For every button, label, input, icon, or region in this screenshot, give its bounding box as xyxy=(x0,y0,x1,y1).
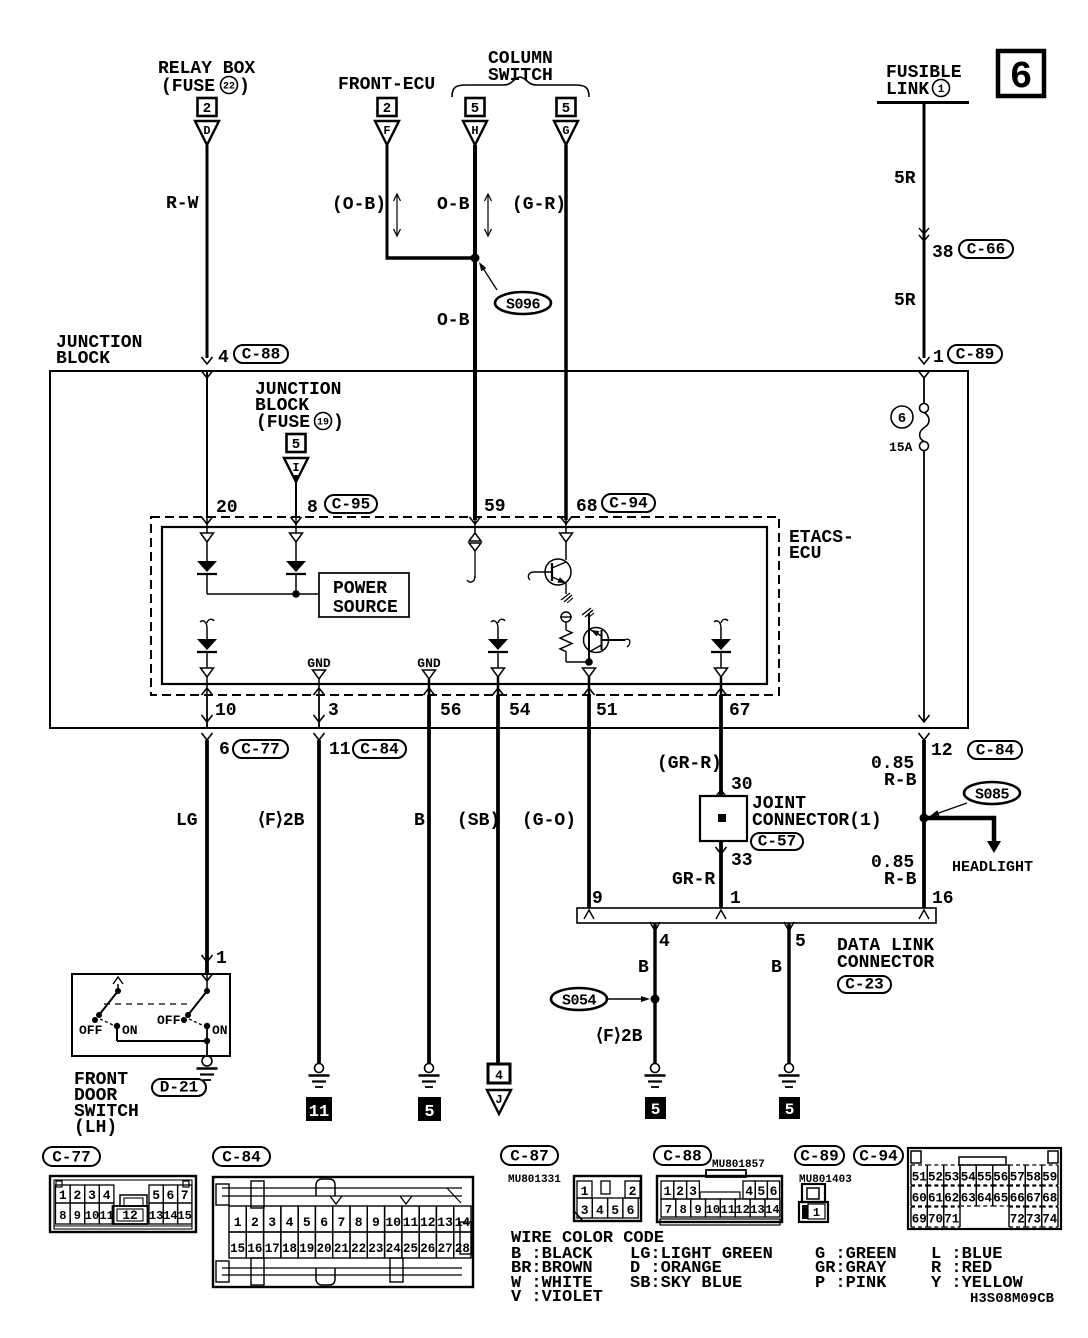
svg-text:5: 5 xyxy=(611,1203,619,1218)
svg-text:6: 6 xyxy=(219,740,230,760)
svg-text:I: I xyxy=(292,461,299,475)
svg-text:63: 63 xyxy=(961,1192,976,1206)
wire O-B from column switch H to ECU pin 59 xyxy=(473,145,477,520)
svg-text:8: 8 xyxy=(680,1203,687,1217)
svg-text:(GR-R): (GR-R) xyxy=(657,754,722,774)
svg-text:7: 7 xyxy=(665,1203,672,1217)
svg-text:5: 5 xyxy=(152,1188,160,1203)
svg-text:13: 13 xyxy=(750,1203,764,1217)
svg-text:6: 6 xyxy=(166,1188,174,1203)
svg-text:55: 55 xyxy=(977,1171,992,1185)
svg-text:FRONT-ECU: FRONT-ECU xyxy=(338,75,435,95)
svg-text:C-94: C-94 xyxy=(609,495,648,513)
svg-text:1: 1 xyxy=(813,1206,820,1220)
connector view C-89 xyxy=(795,1146,844,1165)
svg-text:2: 2 xyxy=(383,101,391,117)
svg-text:13: 13 xyxy=(437,1215,453,1230)
svg-text:8: 8 xyxy=(355,1215,363,1230)
svg-text:11: 11 xyxy=(309,1103,329,1122)
svg-text:69: 69 xyxy=(912,1213,927,1227)
svg-text:12: 12 xyxy=(420,1215,436,1230)
svg-text:C-57: C-57 xyxy=(758,833,796,851)
svg-text:51: 51 xyxy=(596,701,618,721)
svg-text:65: 65 xyxy=(993,1192,1008,1206)
svg-text:20: 20 xyxy=(216,498,238,518)
ground symbol page ref 5c xyxy=(779,1097,800,1119)
door switch right pole xyxy=(206,974,208,991)
wire R-W from relay box to junction block xyxy=(206,145,209,358)
connector view C-84 xyxy=(213,1147,270,1166)
ECU bottom pin entries xyxy=(202,688,213,695)
svg-text:3: 3 xyxy=(689,1184,697,1199)
svg-text:18: 18 xyxy=(282,1242,297,1256)
svg-text:11: 11 xyxy=(403,1215,419,1230)
svg-text:C-87: C-87 xyxy=(510,1148,548,1166)
svg-text:F: F xyxy=(383,124,390,138)
svg-text:8: 8 xyxy=(59,1209,66,1223)
svg-text:67: 67 xyxy=(1026,1192,1041,1206)
svg-text:12: 12 xyxy=(122,1208,138,1223)
wire pin 3 to ground xyxy=(318,695,320,728)
diode chain at ECU pin 10 xyxy=(200,619,214,628)
svg-text:SB:SKY BLUE: SB:SKY BLUE xyxy=(630,1274,742,1293)
svg-text:H3S08M09CB: H3S08M09CB xyxy=(970,1291,1055,1307)
svg-text:28: 28 xyxy=(455,1242,470,1256)
brace over column switch connectors xyxy=(452,77,589,97)
svg-text:1: 1 xyxy=(216,949,227,969)
svg-text:16: 16 xyxy=(932,889,954,909)
connector I (fuse 19 pin 5) xyxy=(287,434,306,452)
svg-text:7: 7 xyxy=(337,1215,345,1230)
svg-text:1: 1 xyxy=(581,1184,589,1199)
ETACS-ECU solid box xyxy=(162,527,767,684)
svg-text:12: 12 xyxy=(735,1203,749,1217)
svg-text:64: 64 xyxy=(977,1192,993,1206)
svg-text:(FUSE: (FUSE xyxy=(256,413,310,433)
ground symbol page ref 11 xyxy=(306,1097,332,1121)
bidirectional arrow 1 xyxy=(396,194,398,236)
svg-text:66: 66 xyxy=(1010,1192,1025,1206)
wire 5R from fusible link xyxy=(923,104,926,358)
svg-text:8: 8 xyxy=(307,498,318,518)
svg-text:): ) xyxy=(333,413,344,433)
svg-text:LINK: LINK xyxy=(886,80,929,100)
svg-text:22: 22 xyxy=(351,1242,366,1256)
svg-text:51: 51 xyxy=(912,1171,927,1185)
svg-text:6: 6 xyxy=(770,1184,778,1199)
svg-text:S096: S096 xyxy=(506,297,541,314)
svg-text:6: 6 xyxy=(627,1203,635,1218)
svg-text:2: 2 xyxy=(629,1184,637,1199)
wire inside junction block from pin 4 xyxy=(206,371,208,518)
svg-text:C-94: C-94 xyxy=(859,1148,898,1166)
svg-text:C-89: C-89 xyxy=(956,346,994,364)
svg-text:33: 33 xyxy=(731,851,753,871)
svg-text:SWITCH: SWITCH xyxy=(488,66,553,86)
connector H (column switch pin 5) xyxy=(466,98,485,116)
svg-text:11: 11 xyxy=(329,740,351,760)
svg-text:74: 74 xyxy=(1042,1213,1058,1227)
svg-text:4: 4 xyxy=(596,1203,604,1218)
svg-text:4: 4 xyxy=(218,348,229,368)
svg-text:R-W: R-W xyxy=(166,194,199,214)
ground under wire 56 xyxy=(425,1064,434,1073)
svg-text:(G-O): (G-O) xyxy=(522,811,576,831)
svg-text:C-77: C-77 xyxy=(241,741,279,759)
wire from fuse 19 to ECU pin 8 xyxy=(295,482,297,518)
svg-text:1: 1 xyxy=(933,348,944,368)
wire DLC pin 4 to ground xyxy=(653,923,656,1063)
svg-text:5: 5 xyxy=(292,437,300,453)
wire pin 10 to front door switch xyxy=(206,695,208,728)
ground under DLC pin 5 xyxy=(785,1064,794,1073)
diode chain at ECU pin 20 xyxy=(206,518,208,533)
svg-text:5R: 5R xyxy=(894,291,916,311)
svg-text:23: 23 xyxy=(368,1242,383,1256)
svg-text:5: 5 xyxy=(651,1101,661,1119)
svg-text:2: 2 xyxy=(251,1215,259,1230)
svg-text:68: 68 xyxy=(576,497,598,517)
svg-text:13: 13 xyxy=(149,1209,163,1223)
svg-text:GR-R: GR-R xyxy=(672,870,715,890)
door switch left pole xyxy=(113,977,123,984)
connector D (relay box pin 2) xyxy=(198,98,217,116)
svg-text:73: 73 xyxy=(1026,1213,1041,1227)
svg-text:B: B xyxy=(414,811,425,831)
svg-text:5: 5 xyxy=(562,101,570,117)
svg-text:⟨F⟩2B: ⟨F⟩2B xyxy=(258,811,305,831)
svg-text:C-84: C-84 xyxy=(976,742,1015,760)
svg-text:HEADLIGHT: HEADLIGHT xyxy=(952,859,1033,876)
splice node S096 xyxy=(471,254,480,263)
ground under DLC pin 4 xyxy=(651,1064,660,1073)
wire pin 56 to ground xyxy=(427,695,431,1063)
svg-text:15: 15 xyxy=(177,1209,191,1223)
svg-text:CONNECTOR: CONNECTOR xyxy=(837,953,934,973)
svg-text:15A: 15A xyxy=(889,440,913,455)
svg-text:P :PINK: P :PINK xyxy=(815,1274,887,1293)
svg-text:O-B: O-B xyxy=(437,311,470,331)
transistor Q2 with resistor at ECU pin 51 xyxy=(582,608,591,615)
svg-text:6: 6 xyxy=(1010,56,1033,99)
svg-text:C-89: C-89 xyxy=(800,1148,838,1166)
connector view C-87 xyxy=(501,1146,558,1165)
connector F (front-ecu pin 2) xyxy=(378,98,397,116)
svg-text:14: 14 xyxy=(163,1209,177,1223)
svg-text:5: 5 xyxy=(424,1103,434,1122)
svg-text:15: 15 xyxy=(230,1242,245,1256)
svg-text:V :VIOLET: V :VIOLET xyxy=(511,1288,603,1307)
svg-text:25: 25 xyxy=(403,1242,418,1256)
svg-text:19: 19 xyxy=(299,1242,314,1256)
diode chain at ECU pin 54 xyxy=(491,619,505,628)
svg-text:MU801331: MU801331 xyxy=(508,1174,561,1186)
svg-text:17: 17 xyxy=(265,1242,280,1256)
ground under door switch D-21 xyxy=(202,1056,212,1066)
svg-text:⟨F⟩2B: ⟨F⟩2B xyxy=(596,1027,643,1047)
svg-text:D-21: D-21 xyxy=(160,1079,198,1097)
svg-text:GND: GND xyxy=(417,656,441,671)
svg-text:O-B: O-B xyxy=(437,195,470,215)
svg-text:(FUSE: (FUSE xyxy=(161,77,215,97)
svg-text:C-23: C-23 xyxy=(845,976,883,994)
svg-text:2: 2 xyxy=(203,101,211,117)
svg-text:6: 6 xyxy=(898,411,906,427)
svg-text:10: 10 xyxy=(385,1215,401,1230)
svg-text:19: 19 xyxy=(317,418,329,429)
svg-text:3: 3 xyxy=(581,1203,589,1218)
svg-text:C-88: C-88 xyxy=(663,1148,701,1166)
joint connector (1) xyxy=(716,790,727,797)
power source box xyxy=(319,573,409,617)
svg-text:26: 26 xyxy=(420,1242,435,1256)
svg-text:ECU: ECU xyxy=(789,544,821,564)
svg-text:1: 1 xyxy=(938,84,945,96)
svg-text:4: 4 xyxy=(286,1215,294,1230)
svg-text:9: 9 xyxy=(372,1215,380,1230)
svg-text:71: 71 xyxy=(944,1213,959,1227)
svg-text:10: 10 xyxy=(706,1203,720,1217)
svg-text:67: 67 xyxy=(729,701,751,721)
svg-text:20: 20 xyxy=(317,1242,332,1256)
svg-text:LG: LG xyxy=(176,811,198,831)
connector view C-88 xyxy=(654,1146,711,1165)
connector view C-94 xyxy=(854,1146,903,1165)
svg-text:GND: GND xyxy=(307,656,331,671)
bidirectional arrow 2 xyxy=(487,194,489,236)
svg-text:C-88: C-88 xyxy=(242,346,280,364)
svg-text:60: 60 xyxy=(912,1192,927,1206)
connector G (column switch pin 5) xyxy=(557,98,576,116)
svg-text:4: 4 xyxy=(659,932,670,952)
svg-text:9: 9 xyxy=(694,1203,701,1217)
svg-text:G: G xyxy=(562,124,569,138)
resistor R1 xyxy=(561,612,571,622)
ground under wire 3 xyxy=(315,1064,324,1073)
svg-text:D: D xyxy=(203,124,210,138)
svg-text:4: 4 xyxy=(745,1184,753,1199)
svg-text:(O-B): (O-B) xyxy=(332,195,386,215)
svg-text:ON: ON xyxy=(212,1023,228,1038)
svg-text:R-B: R-B xyxy=(884,771,917,791)
svg-text:POWER: POWER xyxy=(333,579,387,599)
svg-text:21: 21 xyxy=(334,1242,349,1256)
wire pin 51 to data link pin 9 xyxy=(587,695,591,908)
svg-text:5R: 5R xyxy=(894,169,916,189)
svg-text:2: 2 xyxy=(676,1184,684,1199)
svg-text:3: 3 xyxy=(88,1188,96,1203)
wire pin 67 to joint connector xyxy=(719,695,723,796)
svg-text:5: 5 xyxy=(757,1184,765,1199)
svg-text:24: 24 xyxy=(386,1242,402,1256)
svg-text:52: 52 xyxy=(928,1171,943,1185)
svg-text:2: 2 xyxy=(73,1188,81,1203)
ground symbol page ref 5 xyxy=(418,1097,441,1121)
svg-text:14: 14 xyxy=(765,1203,779,1217)
node at power source input xyxy=(292,590,300,598)
ground symbol page ref 5b xyxy=(645,1097,666,1119)
svg-text:(LH): (LH) xyxy=(74,1118,117,1138)
splice node S054 xyxy=(551,988,607,1010)
internal wire to power source xyxy=(207,593,319,595)
svg-text:3: 3 xyxy=(328,701,339,721)
svg-text:(G-R): (G-R) xyxy=(512,195,566,215)
svg-text:1: 1 xyxy=(234,1215,242,1230)
svg-text:10: 10 xyxy=(85,1209,99,1223)
svg-text:30: 30 xyxy=(731,775,753,795)
svg-text:62: 62 xyxy=(944,1192,959,1206)
svg-text:56: 56 xyxy=(440,701,462,721)
connector view C-77 xyxy=(43,1147,100,1166)
wire fusible link circuit leaving junction block xyxy=(919,715,930,722)
svg-text:R-B: R-B xyxy=(884,870,917,890)
svg-text:57: 57 xyxy=(1010,1171,1025,1185)
wire (O-B) from front-ecu down to splice S096 xyxy=(386,145,389,258)
wire DLC pin 5 to ground xyxy=(787,923,790,1063)
svg-text:54: 54 xyxy=(509,701,531,721)
svg-text:53: 53 xyxy=(944,1171,959,1185)
svg-text:38: 38 xyxy=(932,243,954,263)
page number 6 xyxy=(998,51,1044,96)
svg-text:J: J xyxy=(495,1093,502,1107)
data link connector bar C-23 xyxy=(577,908,936,923)
diode chain at ECU pin 67 xyxy=(714,619,728,628)
svg-text:22: 22 xyxy=(223,82,235,93)
svg-text:7: 7 xyxy=(181,1188,189,1203)
svg-text:4: 4 xyxy=(103,1188,111,1203)
svg-text:5: 5 xyxy=(785,1101,795,1119)
svg-text:68: 68 xyxy=(1042,1192,1057,1206)
transistor Q1 at ECU pin 68 xyxy=(565,518,567,533)
svg-text:H: H xyxy=(471,124,478,138)
svg-text:SOURCE: SOURCE xyxy=(333,598,398,618)
svg-text:S054: S054 xyxy=(562,993,597,1010)
ETACS-ECU dashed outline xyxy=(151,517,779,695)
svg-text:OFF: OFF xyxy=(79,1023,103,1038)
svg-text:9: 9 xyxy=(74,1209,81,1223)
pin 59 internal symbol xyxy=(474,518,476,533)
svg-text:54: 54 xyxy=(961,1171,977,1185)
svg-text:6: 6 xyxy=(320,1215,328,1230)
svg-text:C-84: C-84 xyxy=(222,1149,261,1167)
svg-text:5: 5 xyxy=(795,932,806,952)
svg-text:14: 14 xyxy=(455,1215,471,1230)
svg-text:C-77: C-77 xyxy=(52,1149,90,1167)
svg-text:70: 70 xyxy=(928,1213,943,1227)
connector 4 with triangle J on wire 54 xyxy=(488,1064,510,1083)
svg-text:3: 3 xyxy=(268,1215,276,1230)
svg-text:12: 12 xyxy=(931,741,953,761)
wire (G-R) from column switch G to ECU pin 68 xyxy=(564,145,568,520)
svg-text:59: 59 xyxy=(484,497,506,517)
svg-text:BLOCK: BLOCK xyxy=(56,349,110,369)
svg-text:61: 61 xyxy=(928,1192,943,1206)
svg-text:RELAY BOX: RELAY BOX xyxy=(158,59,255,79)
svg-text:72: 72 xyxy=(1010,1213,1025,1227)
svg-text:ON: ON xyxy=(122,1023,138,1038)
svg-text:B: B xyxy=(638,958,649,978)
svg-text:1: 1 xyxy=(59,1188,67,1203)
svg-text:1: 1 xyxy=(663,1184,671,1199)
svg-text:5: 5 xyxy=(303,1215,311,1230)
mechanical link dashes xyxy=(104,1003,192,1005)
svg-text:CONNECTOR(1): CONNECTOR(1) xyxy=(752,811,882,831)
svg-text:10: 10 xyxy=(215,701,237,721)
svg-text:OFF: OFF xyxy=(157,1013,181,1028)
svg-text:C-95: C-95 xyxy=(332,496,370,514)
svg-text:59: 59 xyxy=(1042,1171,1057,1185)
svg-text:S085: S085 xyxy=(975,787,1010,804)
svg-text:9: 9 xyxy=(592,889,603,909)
node below Q2 xyxy=(585,658,593,666)
svg-text:16: 16 xyxy=(247,1242,262,1256)
svg-text:1: 1 xyxy=(730,889,741,909)
svg-text:58: 58 xyxy=(1026,1171,1041,1185)
svg-text:B: B xyxy=(771,958,782,978)
diode chain at ECU pin 8 xyxy=(295,518,297,533)
wire pin 54 to connector 4-J xyxy=(496,695,500,1064)
svg-text:C-66: C-66 xyxy=(967,241,1005,259)
svg-text:(SB): (SB) xyxy=(457,811,500,831)
svg-text:C-84: C-84 xyxy=(360,741,399,759)
svg-text:5: 5 xyxy=(471,101,479,117)
svg-text:4: 4 xyxy=(495,1068,503,1083)
svg-text:): ) xyxy=(239,77,250,97)
svg-text:56: 56 xyxy=(993,1171,1008,1185)
dedicated fuse 6 15A xyxy=(923,378,925,404)
svg-text:11: 11 xyxy=(721,1203,735,1217)
svg-text:27: 27 xyxy=(438,1242,453,1256)
